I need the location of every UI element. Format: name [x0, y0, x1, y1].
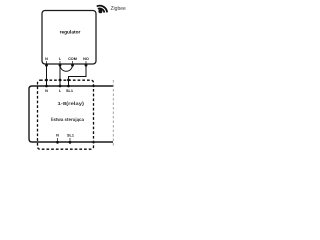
pin tick N — [46, 61, 48, 64]
junction dot N on dashed bus — [45, 79, 48, 82]
expansion box (dashed) — [38, 80, 94, 149]
wire N vertical — [46, 65, 48, 86]
terminal dot L (strip top) — [59, 85, 62, 88]
terminal dot N (strip top) — [45, 85, 48, 88]
zigbee icon — [97, 6, 107, 14]
wire L vertical — [59, 65, 61, 86]
pin tick SL1 bottom — [69, 138, 71, 142]
pin tick NO — [85, 61, 87, 64]
terminal dot N (strip bottom) — [56, 141, 59, 144]
svg-text:listwa sterująca: listwa sterująca — [51, 117, 85, 122]
svg-text:N: N — [56, 134, 59, 138]
svg-text:NO: NO — [83, 57, 89, 61]
svg-text:SL1: SL1 — [67, 134, 74, 138]
regulator U1 (thermostat box) — [42, 11, 96, 65]
pin tick L — [59, 61, 61, 64]
terminal dot L (regulator) — [59, 64, 62, 67]
terminal dot NO (regulator) — [85, 64, 88, 67]
terminal dot COM (regulator) — [71, 64, 74, 67]
junction dot SL1 on dashed bus — [67, 79, 70, 82]
pin tick N bottom — [57, 138, 59, 142]
terminal dot SL1 (strip top) — [67, 85, 70, 88]
svg-text:N: N — [45, 89, 48, 93]
junction dot dashed-box top — [92, 85, 94, 87]
wiring centre box (solid, open right) — [29, 86, 113, 142]
svg-text:SL1: SL1 — [66, 89, 73, 93]
svg-text:COM: COM — [68, 57, 77, 61]
pin tick COM — [72, 61, 74, 64]
junction dot L on dashed bus — [59, 79, 62, 82]
wire NO to SL1 — [69, 65, 87, 86]
svg-text:N: N — [45, 57, 48, 61]
continuation edge (faint dashed) — [112, 80, 114, 147]
wire jumper arc L-COM — [60, 65, 73, 71]
terminal dot N (regulator) — [45, 64, 48, 67]
svg-text:regulator: regulator — [60, 30, 81, 36]
svg-text:1-8(relay): 1-8(relay) — [58, 101, 85, 106]
terminal dot SL1 (strip bottom) — [69, 141, 72, 144]
junction dot dashed-box bottom — [92, 141, 94, 143]
svg-text:Zigbee: Zigbee — [111, 6, 127, 12]
